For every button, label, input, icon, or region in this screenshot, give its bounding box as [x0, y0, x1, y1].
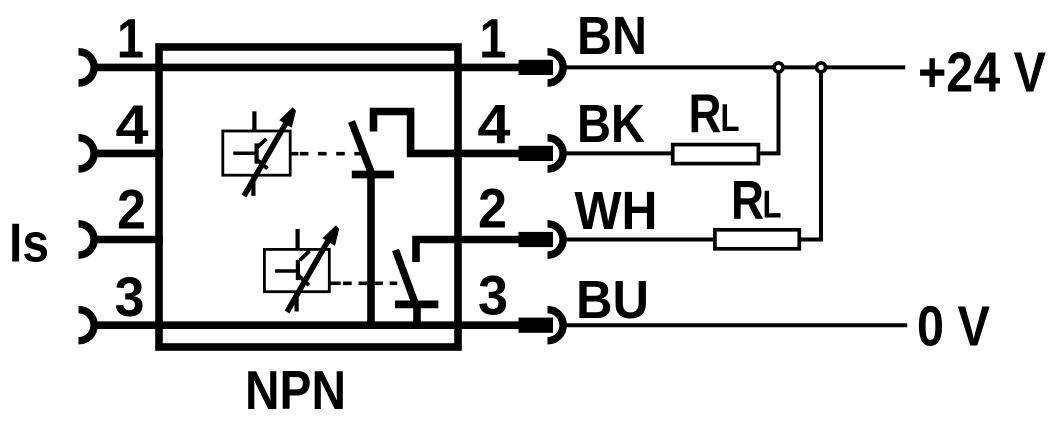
- sensor S2 internal lower diagonal: [298, 275, 309, 285]
- sensor S2 internal contact bar: [296, 260, 300, 280]
- sensor S1 internal lead: [233, 152, 257, 156]
- node A junction circle: [774, 63, 783, 72]
- sensor S1 internal upper diagonal: [256, 139, 266, 148]
- dashed actuation link S1 to switch K1: [290, 152, 361, 156]
- plug pin 3: [519, 318, 554, 333]
- wire resistor RL2 to node B: [801, 238, 823, 242]
- sensor block outline: [159, 47, 458, 347]
- plug pin 2: [519, 232, 554, 247]
- wire pin 1 rail (left socket through box to plug 1): [92, 64, 520, 72]
- socket pin 2 right: [548, 224, 564, 255]
- wire node B drop: [819, 67, 823, 239]
- resistor RL1: [673, 145, 759, 164]
- svg-text:3: 3: [115, 266, 145, 328]
- plug pin 1: [519, 60, 554, 75]
- svg-text:0 V: 0 V: [917, 295, 990, 358]
- svg-text:R: R: [731, 169, 764, 231]
- svg-text:WH: WH: [575, 181, 658, 241]
- sensor S2 bottom stub: [295, 291, 299, 312]
- switch K2 contact bar: [395, 301, 438, 309]
- svg-text:1: 1: [117, 7, 144, 69]
- socket pin 1 left: [79, 52, 95, 83]
- dashed actuation link S2 to switch K2: [329, 281, 397, 285]
- wire switch K1 to pin 3 rail: [367, 175, 375, 326]
- wire switch K2 to pin 3 rail: [413, 304, 421, 325]
- socket pin 3 left: [79, 310, 95, 341]
- proximity sensor S1 body: [223, 131, 290, 175]
- switch K1 fixed contact and wire to pin 4 rail: [374, 112, 520, 154]
- svg-text:2: 2: [478, 178, 507, 240]
- node B junction circle: [817, 63, 826, 72]
- sensor S2 internal upper diagonal: [300, 251, 310, 260]
- svg-text:4: 4: [478, 94, 511, 156]
- sensor S1 bottom stub: [251, 175, 255, 196]
- switch K2 fixed contact and pin 2 rail to plug: [416, 240, 520, 263]
- wire BN to +24 V: [563, 65, 905, 69]
- proximity sensor S2 body: [264, 249, 329, 291]
- socket pin 1 right: [548, 52, 564, 83]
- sensor S1 adjustability arrow: [244, 107, 296, 196]
- svg-text:R: R: [689, 83, 722, 145]
- wire node A drop: [777, 67, 781, 153]
- socket pin 2 left: [79, 224, 95, 255]
- sensor S2 adjustability arrow: [287, 225, 339, 312]
- wire BK to resistor RL1: [563, 151, 671, 155]
- svg-text:BK: BK: [577, 94, 645, 154]
- sensor S1 top stub: [252, 111, 256, 132]
- wire resistor RL1 to node A: [760, 151, 780, 155]
- svg-text:+24 V: +24 V: [918, 40, 1046, 103]
- socket pin 4 left: [79, 138, 95, 169]
- wire pin 2 left: [92, 236, 163, 244]
- wire BU to 0 V: [563, 323, 907, 327]
- wire pin 4 left: [92, 150, 163, 158]
- sensor S1 internal lower diagonal: [257, 160, 268, 169]
- wire WH to resistor RL2: [563, 238, 713, 242]
- svg-text:Is: Is: [9, 211, 49, 273]
- sensor S2 internal lead: [275, 269, 298, 273]
- svg-text:NPN: NPN: [245, 360, 346, 421]
- svg-text:4: 4: [116, 94, 149, 156]
- socket pin 4 right: [548, 138, 564, 169]
- socket pin 3 right: [548, 310, 564, 341]
- svg-text:2: 2: [117, 179, 146, 241]
- sensor S1 internal contact bar: [255, 143, 259, 163]
- resistor RL2: [715, 230, 799, 249]
- sensor S2 top stub: [296, 229, 300, 250]
- switch K1 contact bar: [352, 171, 394, 179]
- svg-text:BN: BN: [577, 6, 647, 66]
- svg-text:L: L: [721, 97, 740, 140]
- svg-text:BU: BU: [576, 270, 649, 330]
- switch K2 lever: [396, 250, 415, 302]
- plug pin 4: [519, 146, 554, 161]
- switch K1 lever: [352, 122, 372, 173]
- svg-text:3: 3: [478, 264, 508, 326]
- wire pin 3 rail (left socket through box to plug 3): [92, 321, 520, 329]
- svg-text:1: 1: [480, 7, 507, 69]
- svg-text:L: L: [763, 184, 782, 227]
